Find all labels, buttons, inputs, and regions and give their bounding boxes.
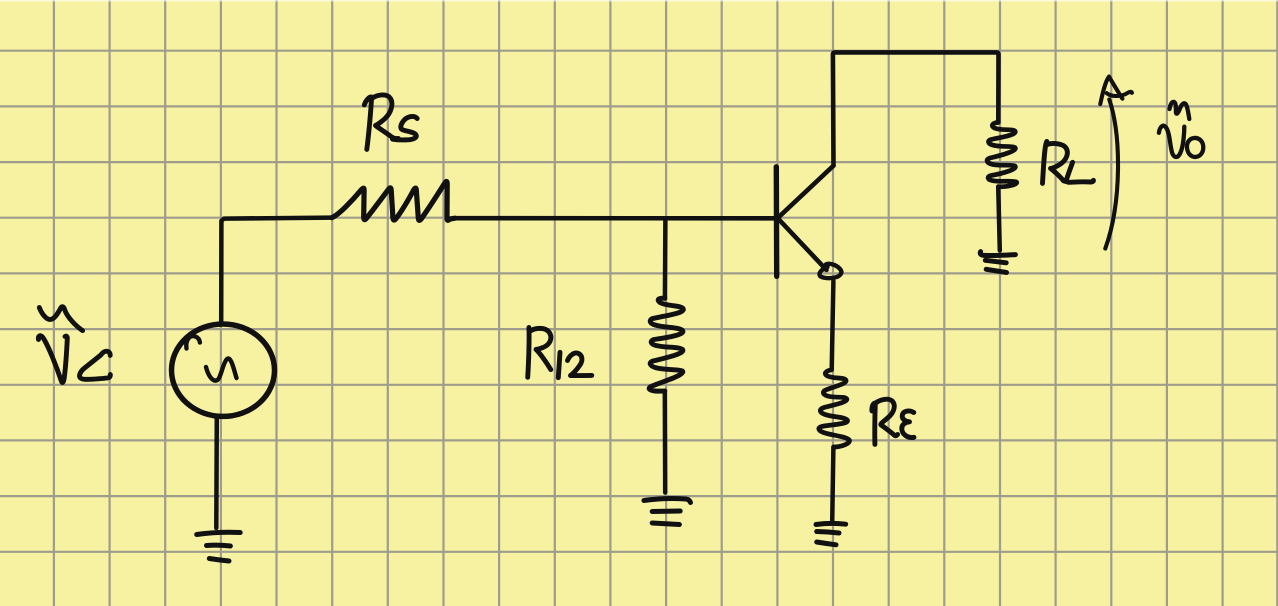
wire Rs to base (455, 216, 776, 221)
wire source to ground (214, 416, 219, 528)
resistor RS (332, 181, 455, 220)
wire RE to ground (832, 447, 833, 523)
resistor RE (819, 370, 850, 447)
wire emitter to RE (832, 281, 834, 370)
wire base node to R12 (663, 218, 668, 298)
ground under RL (980, 252, 1015, 273)
voltage source VS (172, 324, 275, 416)
wire R12 to ground (663, 391, 668, 493)
wire RL to ground (998, 187, 1000, 251)
output arrow vo (1100, 77, 1132, 249)
label vo (1159, 102, 1203, 157)
wire collector to RL top (833, 52, 999, 165)
ground under RE (816, 523, 846, 544)
resistor RL (987, 122, 1017, 186)
label RL (1043, 141, 1094, 183)
ground under R12 (644, 499, 691, 525)
label Vs (38, 307, 110, 383)
ground under source (197, 532, 241, 561)
label Rs (364, 95, 417, 149)
wire source to Rs (221, 218, 332, 325)
resistor R12 (649, 298, 683, 391)
transistor Q1 (776, 166, 841, 279)
label R12 (528, 328, 592, 378)
label RE (872, 399, 914, 444)
